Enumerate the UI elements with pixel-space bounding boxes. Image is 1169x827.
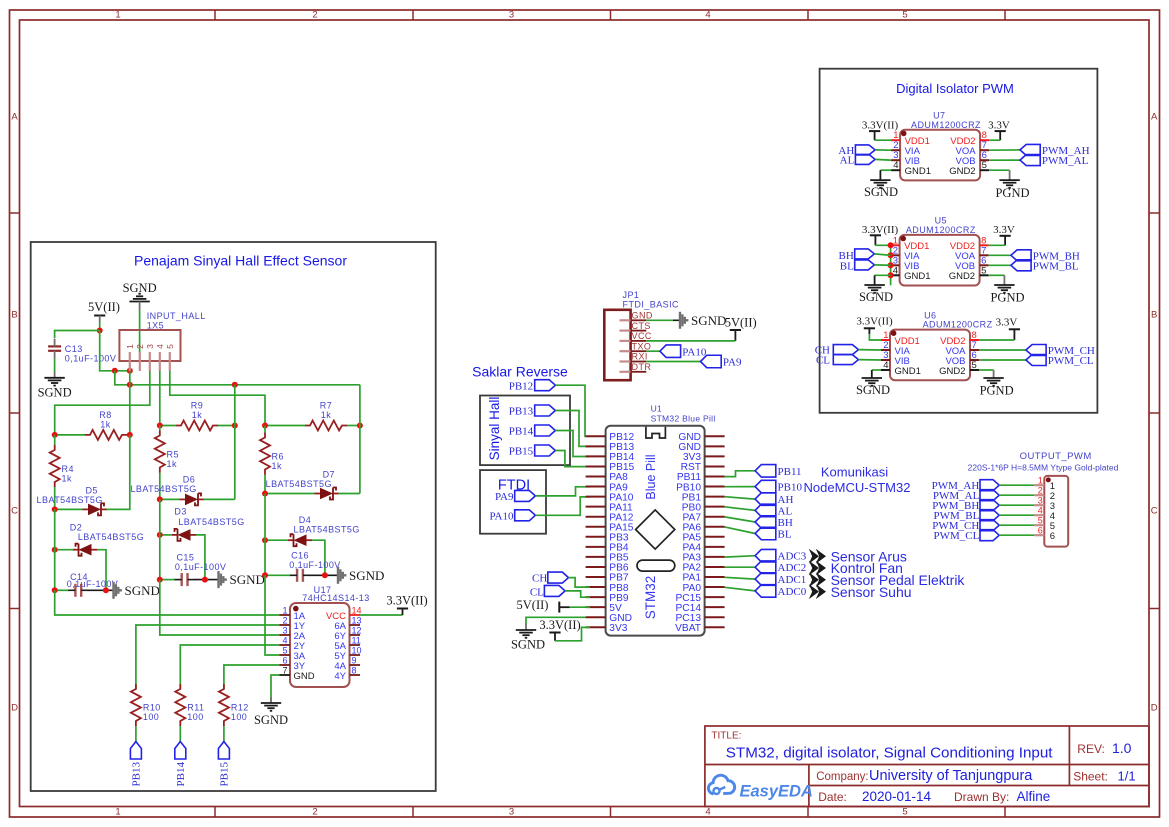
svg-text:7: 7 <box>282 666 287 676</box>
wire R8 right <box>127 434 130 436</box>
wire U17 2A input line <box>160 580 280 635</box>
svg-text:SGND: SGND <box>859 290 893 304</box>
wire INPUT_HALL pin5 to R7 left <box>170 371 265 426</box>
wire U6 VOB to PWM_CL <box>979 359 1026 361</box>
junction U5 left bus <box>888 242 894 248</box>
frame column tick bottom <box>610 807 612 818</box>
wire R5 top <box>159 426 161 431</box>
U7 pin 1 stub <box>891 139 900 141</box>
svg-text:R11: R11 <box>187 703 204 713</box>
svg-text:D4: D4 <box>299 515 311 525</box>
wire BH to U5 VIA <box>874 254 890 255</box>
svg-text:6: 6 <box>282 656 287 666</box>
svg-text:GND1: GND1 <box>905 166 931 177</box>
wire PWM_AH to OUTPUT_PWM <box>999 484 1034 486</box>
junction C16 left <box>262 572 268 578</box>
wire R7 right column down to D7 <box>359 385 361 494</box>
wire 5V rail drop <box>115 371 360 385</box>
wire column R6-D7-D4-C16 <box>264 494 266 576</box>
svg-text:LBAT54BST5G: LBAT54BST5G <box>130 484 196 494</box>
U1 left pin PB12 stub <box>586 435 606 437</box>
wire U7 VDD2 to 3.3V <box>989 139 1000 141</box>
svg-text:10: 10 <box>352 646 362 656</box>
svg-text:PWM_BL: PWM_BL <box>1033 260 1079 272</box>
diode D5 LBAT54BST5G <box>88 504 101 516</box>
U17 pin 4 2Y stub <box>280 644 291 646</box>
svg-text:SGND: SGND <box>864 185 898 199</box>
svg-text:C: C <box>11 506 18 517</box>
U1 left pin PB5 stub <box>586 556 606 558</box>
svg-text:1/1: 1/1 <box>1118 769 1136 784</box>
junction rail / pin1 column <box>127 382 133 388</box>
wire U1 GND to SGND <box>526 617 586 623</box>
JP1 pin 5 RXI <box>620 360 631 362</box>
svg-text:3: 3 <box>509 807 514 818</box>
wire C14 right to SGND tag <box>88 589 113 591</box>
svg-text:ADC1: ADC1 <box>778 574 807 586</box>
svg-text:9: 9 <box>352 656 357 666</box>
U1 left pin GND stub <box>586 616 606 618</box>
EasyEDA logo cloud <box>708 775 734 794</box>
svg-text:3: 3 <box>1038 495 1043 505</box>
resistor R12 100 <box>219 684 229 726</box>
wire R7 left <box>265 425 305 427</box>
wire U7 VOB to PWM_AL <box>989 159 1020 161</box>
U1 usb tab drawing <box>646 427 666 438</box>
svg-text:1: 1 <box>115 807 120 818</box>
capacitor C13 0,1uF-100V <box>48 345 61 347</box>
JP1 pin 4 TXO <box>620 350 631 352</box>
svg-text:D: D <box>1151 703 1158 714</box>
svg-text:University of Tanjungpura: University of Tanjungpura <box>869 768 1033 784</box>
svg-text:1: 1 <box>282 606 287 616</box>
net flag PWM_BH <box>1011 250 1031 261</box>
frame row tick right <box>1149 608 1160 610</box>
connector J INPUT_HALL 1X5 <box>119 330 180 361</box>
wire D4 cathode <box>265 539 288 541</box>
svg-text:5V(II): 5V(II) <box>725 315 757 329</box>
U1 right pin PA2 stub <box>705 566 725 568</box>
svg-text:EasyEDA: EasyEDA <box>740 783 813 801</box>
JP1 pin 1 GND <box>620 319 631 321</box>
net flag BH <box>755 516 776 529</box>
svg-text:Digital Isolator PWM: Digital Isolator PWM <box>896 81 1014 96</box>
svg-text:SGND: SGND <box>230 572 265 587</box>
U1 right pin PA4 stub <box>705 546 725 548</box>
ground PGND below U6 <box>983 377 1003 379</box>
svg-text:Drawn By:: Drawn By: <box>954 790 1009 804</box>
frame row tick right <box>1149 212 1160 214</box>
frame column tick top <box>214 10 216 20</box>
junction U5 left bus <box>888 262 894 268</box>
svg-text:2: 2 <box>135 344 145 349</box>
U17 pin 10 5Y stub <box>350 654 361 656</box>
junction C14 right <box>103 587 109 593</box>
svg-text:C15: C15 <box>176 553 194 563</box>
net flag PA9 at JP1 <box>646 361 700 363</box>
svg-text:OUTPUT_PWM: OUTPUT_PWM <box>1020 451 1092 462</box>
svg-text:SGND: SGND <box>38 386 72 400</box>
net flag PB13 <box>130 742 141 760</box>
wire U1 to ADC3 flag <box>725 556 756 557</box>
title block divider rev column <box>1068 726 1070 786</box>
svg-text:STM32: STM32 <box>643 576 658 620</box>
U6 pin 5 stub <box>970 369 979 371</box>
svg-text:C: C <box>1151 506 1158 517</box>
wire U6 GND1 to SGND <box>872 369 881 371</box>
svg-text:SGND: SGND <box>349 568 384 583</box>
U1 left pin 5V stub <box>586 606 606 608</box>
svg-text:D: D <box>11 703 18 714</box>
svg-text:PA10: PA10 <box>489 510 514 522</box>
svg-text:STM32, digital isolator, Signa: STM32, digital isolator, Signal Conditio… <box>726 745 1054 762</box>
svg-text:1k: 1k <box>272 461 282 471</box>
section box Penajam Sinyal Hall Effect Sensor <box>31 242 436 791</box>
diode D2 LBAT54BST5G <box>79 544 92 556</box>
wire 3.3V(II) to U7 VDD1 <box>875 139 892 141</box>
wire INPUT_HALL pin3 to R8 left node <box>55 371 150 435</box>
svg-text:AH: AH <box>778 494 794 506</box>
svg-text:PB15: PB15 <box>509 446 534 458</box>
net flag PB10 <box>755 480 776 493</box>
svg-text:VBAT: VBAT <box>675 623 701 634</box>
svg-text:GND2: GND2 <box>949 166 975 177</box>
wire R4 top <box>54 435 56 445</box>
INPUT_HALL pin 1 stub <box>129 352 131 371</box>
wire U1 to BL flag <box>725 527 756 534</box>
arrow marker Sensor Pedal Elektrik <box>809 572 819 587</box>
U17 pin 3 2A stub <box>280 634 291 636</box>
junction U5 left bus <box>888 252 894 258</box>
svg-text:RXI: RXI <box>632 352 648 362</box>
svg-text:BL: BL <box>840 260 854 272</box>
wire R6 bottom <box>264 475 266 494</box>
U1 right pin PB10 stub <box>705 486 725 488</box>
svg-text:4: 4 <box>282 636 287 646</box>
ic U6 ADUM1200CRZ body <box>890 330 970 381</box>
U17 pin 14 VCC stub <box>350 614 361 616</box>
U1 right pin PA7 stub <box>705 516 725 518</box>
svg-text:R4: R4 <box>62 464 74 474</box>
svg-text:2020-01-14: 2020-01-14 <box>862 789 932 804</box>
svg-text:1k: 1k <box>100 420 110 430</box>
wire U17 GND to SGND <box>271 675 280 702</box>
svg-text:PWM_AL: PWM_AL <box>1042 155 1089 167</box>
U1 pill drawing <box>637 560 675 571</box>
wire U6 VDD2 to 3.3V <box>979 339 1014 341</box>
net flag PWM_CL <box>1026 355 1046 366</box>
svg-text:5: 5 <box>902 9 907 20</box>
svg-text:ADUM1200CRZ: ADUM1200CRZ <box>906 225 976 235</box>
U1 left pin PB8 stub <box>586 586 606 588</box>
wire D4 anode down to C16 node <box>312 540 325 575</box>
frame column tick top <box>412 10 414 20</box>
svg-text:GND2: GND2 <box>949 271 975 282</box>
wire R4 bottom <box>54 487 56 509</box>
ground PGND below U7 <box>999 179 1019 181</box>
U1 right pin PC15 stub <box>705 596 725 598</box>
net flag AH <box>755 493 776 506</box>
wire U1 to AL flag <box>725 507 756 511</box>
U17 pin 5 3A stub <box>280 654 291 656</box>
svg-text:R10: R10 <box>143 703 161 713</box>
svg-text:ADC3: ADC3 <box>778 551 807 563</box>
U1 left pin PB13 stub <box>586 445 606 447</box>
svg-text:1k: 1k <box>321 410 331 420</box>
wire CH to PB8 <box>569 578 591 588</box>
svg-text:CL: CL <box>816 355 830 367</box>
junction D6 anode <box>157 496 163 502</box>
svg-text:0,1uF-100V: 0,1uF-100V <box>289 560 341 570</box>
ground SGND below U5 <box>864 284 884 286</box>
INPUT_HALL pin 4 stub <box>159 352 161 371</box>
wire C15 right to SGND tag <box>195 579 219 581</box>
svg-text:VCC: VCC <box>632 331 652 341</box>
svg-text:GND: GND <box>294 671 315 682</box>
wire U17 3Y to R12 <box>224 665 280 689</box>
U6 pin 1 stub <box>881 339 890 341</box>
svg-text:3.3V(II): 3.3V(II) <box>539 618 580 632</box>
ground tag SGND at C15 <box>217 571 219 588</box>
svg-text:PA9: PA9 <box>723 357 742 369</box>
wire 5V junction to C13 <box>55 331 100 339</box>
wire JP1 GND to SGND tag <box>646 319 673 321</box>
svg-text:SGND: SGND <box>511 638 545 652</box>
svg-text:220S-1*6P H=8.5MM Ytype Gold-p: 220S-1*6P H=8.5MM Ytype Gold-plated <box>968 463 1119 473</box>
svg-text:GND1: GND1 <box>895 366 921 377</box>
svg-text:2: 2 <box>312 807 317 818</box>
svg-text:ADC2: ADC2 <box>778 562 807 574</box>
svg-text:8: 8 <box>352 666 357 676</box>
U6 pin 4 stub <box>881 369 890 371</box>
U1 left pin PA9 stub <box>586 486 606 488</box>
net flag ADC0 <box>755 585 776 598</box>
ground tag SGND at C14 <box>112 582 114 599</box>
ground PGND below U5 <box>994 284 1014 286</box>
frame row tick right <box>1149 412 1160 414</box>
svg-text:6: 6 <box>1038 525 1043 535</box>
U5 pin 7 stub <box>980 254 989 256</box>
wire U7 GND2 to PGND <box>989 169 1010 171</box>
U1 right pin PA1 stub <box>705 576 725 578</box>
svg-text:PGND: PGND <box>990 291 1024 305</box>
svg-text:0,1uF-100V: 0,1uF-100V <box>175 562 227 572</box>
svg-text:LBAT54BST5G: LBAT54BST5G <box>266 479 332 489</box>
OUTPUT_PWM pin 4 stub <box>1034 514 1044 516</box>
junction C15 left <box>157 577 163 583</box>
wire CL to U6 VIB <box>859 359 882 361</box>
svg-text:PB13: PB13 <box>131 762 143 787</box>
wire U17 1Y to R10 <box>136 625 280 689</box>
svg-text:STM32 Blue Pill: STM32 Blue Pill <box>651 414 716 424</box>
svg-text:PB10: PB10 <box>778 482 803 494</box>
wire D7 cathode <box>339 493 360 495</box>
U1 right pin VBAT stub <box>705 626 725 628</box>
U5 pin 8 stub <box>980 244 989 246</box>
svg-text:4: 4 <box>705 807 710 818</box>
net flag ADC1 <box>755 573 776 586</box>
svg-text:PGND: PGND <box>995 186 1029 200</box>
U1 left pin PB9 stub <box>586 596 606 598</box>
arrow marker Sensor Arus <box>809 549 819 564</box>
svg-text:5: 5 <box>165 344 175 349</box>
wire D7 anode <box>265 493 315 495</box>
svg-text:Sheet:: Sheet: <box>1073 770 1108 784</box>
svg-text:4: 4 <box>1038 505 1043 515</box>
wire R9 left <box>160 425 176 427</box>
U1 right pin PC14 stub <box>705 606 725 608</box>
U7 pin 3 stub <box>891 159 900 161</box>
svg-text:REV:: REV: <box>1077 742 1105 756</box>
U1 right pin GND stub <box>705 435 725 437</box>
frame column tick bottom <box>412 807 414 818</box>
svg-text:100: 100 <box>187 712 203 722</box>
svg-text:SGND: SGND <box>123 281 157 295</box>
svg-text:4Y: 4Y <box>334 671 346 682</box>
svg-text:Saklar Reverse: Saklar Reverse <box>472 364 568 380</box>
wire BL to U5 VIB <box>874 264 890 266</box>
svg-text:A: A <box>11 112 18 123</box>
U7 pin 6 stub <box>980 159 989 161</box>
ground SGND below U7 <box>870 179 890 181</box>
svg-text:1k: 1k <box>167 459 177 469</box>
OUTPUT_PWM pin 3 stub <box>1034 504 1044 506</box>
diode D3 LBAT54BST5G <box>178 529 191 541</box>
svg-text:6: 6 <box>1050 531 1055 542</box>
wire C16 right to SGND tag <box>310 574 338 576</box>
U17 pin 7 GND stub <box>280 674 291 676</box>
diode D4 LBAT54BST5G <box>294 534 307 546</box>
frame column tick bottom <box>1004 807 1006 818</box>
svg-text:D3: D3 <box>174 507 186 517</box>
title block divider logo <box>808 765 810 807</box>
diode D6 LBAT54BST5G <box>185 494 198 506</box>
net flag ADC3 <box>755 549 776 562</box>
U5 pin 4 stub <box>891 274 900 276</box>
wire R7 right <box>347 425 360 427</box>
junction C16 right <box>322 572 328 578</box>
U1 right pin PB11 stub <box>705 476 725 478</box>
svg-text:5: 5 <box>902 807 907 818</box>
svg-text:13: 13 <box>352 616 362 626</box>
U1 right pin PA5 stub <box>705 536 725 538</box>
U17 pin 12 6Y stub <box>350 634 361 636</box>
U5 pin 5 stub <box>980 274 989 276</box>
net flag PB15 <box>218 742 229 760</box>
junction R7 left <box>262 423 268 429</box>
wire R12 to PB15 flag <box>223 726 225 742</box>
ic U5 ADUM1200CRZ body <box>900 235 980 286</box>
JP1 pin 3 VCC <box>620 340 631 342</box>
wire U1 to BH flag <box>725 517 756 522</box>
svg-text:PWM_CL: PWM_CL <box>933 530 979 542</box>
wire U6 VOA to PWM_CH <box>979 349 1026 351</box>
svg-text:Komunikasi: Komunikasi <box>821 465 888 480</box>
svg-text:11: 11 <box>352 636 361 646</box>
resistor R11 100 <box>175 684 185 726</box>
U1 left pin PA8 stub <box>586 476 606 478</box>
ground tag SGND at C16 <box>337 567 339 584</box>
svg-text:Sinyal Hall: Sinyal Hall <box>487 397 502 461</box>
svg-text:AL: AL <box>778 505 793 517</box>
wire INPUT_HALL pin1 column down to R8 right <box>129 371 131 435</box>
junction C14 left <box>52 587 58 593</box>
wire 3.3V(II) to U5 VDD1 <box>875 244 890 246</box>
section box Sinyal Hall <box>480 396 570 466</box>
net flag PWM_AH <box>1020 144 1040 155</box>
svg-text:LBAT54BST5G: LBAT54BST5G <box>78 532 144 542</box>
svg-text:TXO: TXO <box>632 341 652 351</box>
U1 left pin PB3 stub <box>586 536 606 538</box>
U5 pin 3 stub <box>891 264 900 266</box>
junction R9 left <box>157 423 163 429</box>
wire PB13 to U1 <box>555 411 590 447</box>
svg-text:3.3V(II): 3.3V(II) <box>386 594 427 608</box>
U6 pin 8 stub <box>970 339 979 341</box>
svg-text:C16: C16 <box>291 551 309 561</box>
wire 5V to U1 <box>570 606 591 608</box>
svg-text:Alfine: Alfine <box>1017 789 1051 804</box>
svg-text:3.3V(II): 3.3V(II) <box>856 315 893 327</box>
wire PB12 to U1 <box>555 385 590 436</box>
svg-text:100: 100 <box>231 712 247 722</box>
OUTPUT_PWM pin 5 stub <box>1034 524 1044 526</box>
svg-text:0,1uF-100V: 0,1uF-100V <box>67 579 119 589</box>
svg-text:U1: U1 <box>651 404 662 414</box>
svg-text:JP1: JP1 <box>623 290 640 300</box>
svg-text:PB13: PB13 <box>509 406 534 418</box>
wire U17 1A input line <box>55 590 280 615</box>
wire AH to U7 VIA <box>875 149 891 151</box>
wire SGND to INPUT_HALL pin 2 <box>139 310 141 353</box>
svg-text:2: 2 <box>282 616 287 626</box>
ground tag SGND at JP1 <box>679 312 681 329</box>
wire D6 cathode <box>204 498 235 500</box>
svg-text:PWM_CL: PWM_CL <box>1048 355 1094 367</box>
junction 5V node <box>97 328 103 334</box>
U1 left pin PA10 stub <box>586 496 606 498</box>
net flag AL <box>755 504 776 517</box>
svg-text:NodeMCU-STM32: NodeMCU-STM32 <box>804 480 911 495</box>
U1 left pin PA15 stub <box>586 526 606 528</box>
svg-text:CL: CL <box>530 587 544 599</box>
resistor R7 1k <box>305 421 347 431</box>
resistor R8 1k <box>85 430 127 440</box>
svg-text:3.3V: 3.3V <box>996 316 1018 328</box>
svg-text:Blue Pill: Blue Pill <box>644 454 658 499</box>
svg-text:BL: BL <box>778 529 792 541</box>
wire U1 to PB10 flag <box>725 486 756 488</box>
svg-text:R8: R8 <box>99 410 111 420</box>
wire PWM_BL to OUTPUT_PWM <box>999 514 1034 516</box>
U1 right pin 3V3 stub <box>705 455 725 457</box>
svg-text:5: 5 <box>1038 515 1043 525</box>
wire R11 to PB14 flag <box>179 726 181 742</box>
junction D7 anode <box>262 491 268 497</box>
svg-text:DTR: DTR <box>632 362 652 372</box>
title block outline <box>705 726 1149 807</box>
svg-text:AL: AL <box>840 154 855 166</box>
svg-text:0,1uF-100V: 0,1uF-100V <box>65 353 117 363</box>
svg-text:2: 2 <box>1038 485 1043 495</box>
wire R8 left <box>55 434 85 436</box>
svg-text:B: B <box>1151 310 1157 321</box>
svg-text:1.0: 1.0 <box>1112 740 1132 756</box>
net flag PB14 <box>175 742 186 760</box>
ic U7 ADUM1200CRZ body <box>900 130 980 181</box>
resistor R6 1k <box>260 433 270 475</box>
U1 right pin PA6 stub <box>705 526 725 528</box>
